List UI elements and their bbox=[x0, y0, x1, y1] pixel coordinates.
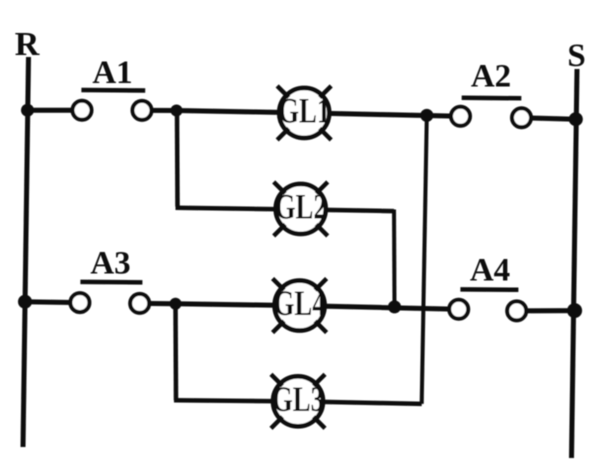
wire top rail segment A1 to A2 (through GL1) bbox=[142, 110, 461, 116]
wire R bus (left vertical) bbox=[23, 57, 29, 447]
lamp GL3 bbox=[273, 376, 323, 426]
pushbutton A4 right contact bbox=[507, 301, 526, 320]
svg-text:S: S bbox=[567, 38, 585, 74]
pushbutton A3 left contact bbox=[70, 293, 89, 312]
pushbutton A4 left contact bbox=[449, 300, 468, 319]
wire bottom rail segment A4 to S bbox=[517, 308, 575, 313]
lamp GL1 bbox=[279, 88, 329, 138]
wire GL2 branch horizontal bbox=[176, 208, 395, 211]
wire GL3 branch horizontal bbox=[174, 400, 422, 404]
wire long vertical from top rail junction to GL3 line bbox=[422, 115, 427, 404]
svg-text:GL4: GL4 bbox=[274, 283, 326, 323]
junction after A3 bbox=[170, 298, 182, 310]
wire S bus (right vertical) bbox=[572, 69, 578, 458]
junction S / top rail bbox=[569, 112, 583, 126]
svg-text:GL1: GL1 bbox=[278, 91, 330, 131]
pushbutton A1 left contact bbox=[73, 101, 92, 120]
switch A2 bar bbox=[462, 96, 522, 101]
wire GL3 branch left vertical bbox=[173, 304, 178, 401]
junction top rail / long vertical bbox=[420, 109, 433, 122]
junction GL2 vertical / bottom rail bbox=[388, 300, 401, 313]
lamp GL4 bbox=[275, 281, 325, 331]
lamp GL2 bbox=[276, 184, 326, 234]
junction R / top rail bbox=[21, 104, 34, 117]
switch A4 bar bbox=[460, 287, 518, 292]
pushbutton A2 right contact bbox=[512, 108, 531, 127]
wire bottom rail segment R to A3 bbox=[23, 299, 80, 305]
svg-text:A3: A3 bbox=[90, 246, 130, 282]
pushbutton A1 right contact bbox=[133, 101, 152, 120]
wire top rail segment R to A1 bbox=[25, 108, 82, 113]
svg-text:GL3: GL3 bbox=[272, 379, 324, 419]
wire GL2 branch left vertical bbox=[175, 111, 180, 207]
junction S / bottom rail bbox=[567, 303, 582, 318]
wire bottom rail segment A3 to A4 (through GL4) bbox=[140, 303, 459, 309]
pushbutton A2 left contact bbox=[451, 107, 470, 126]
svg-text:A2: A2 bbox=[471, 59, 511, 95]
junction R / bottom rail bbox=[18, 295, 32, 309]
switch A3 bar bbox=[80, 280, 142, 285]
junction after A1 bbox=[171, 105, 183, 117]
svg-text:A4: A4 bbox=[470, 253, 510, 289]
switch A1 bar bbox=[81, 88, 145, 93]
svg-text:GL2: GL2 bbox=[275, 187, 327, 227]
svg-text:A1: A1 bbox=[92, 55, 132, 91]
wire top rail segment A2 to S bbox=[522, 118, 577, 119]
wire GL2 branch right vertical (to GL4 rail) bbox=[392, 210, 397, 307]
pushbutton A3 right contact bbox=[130, 294, 149, 313]
